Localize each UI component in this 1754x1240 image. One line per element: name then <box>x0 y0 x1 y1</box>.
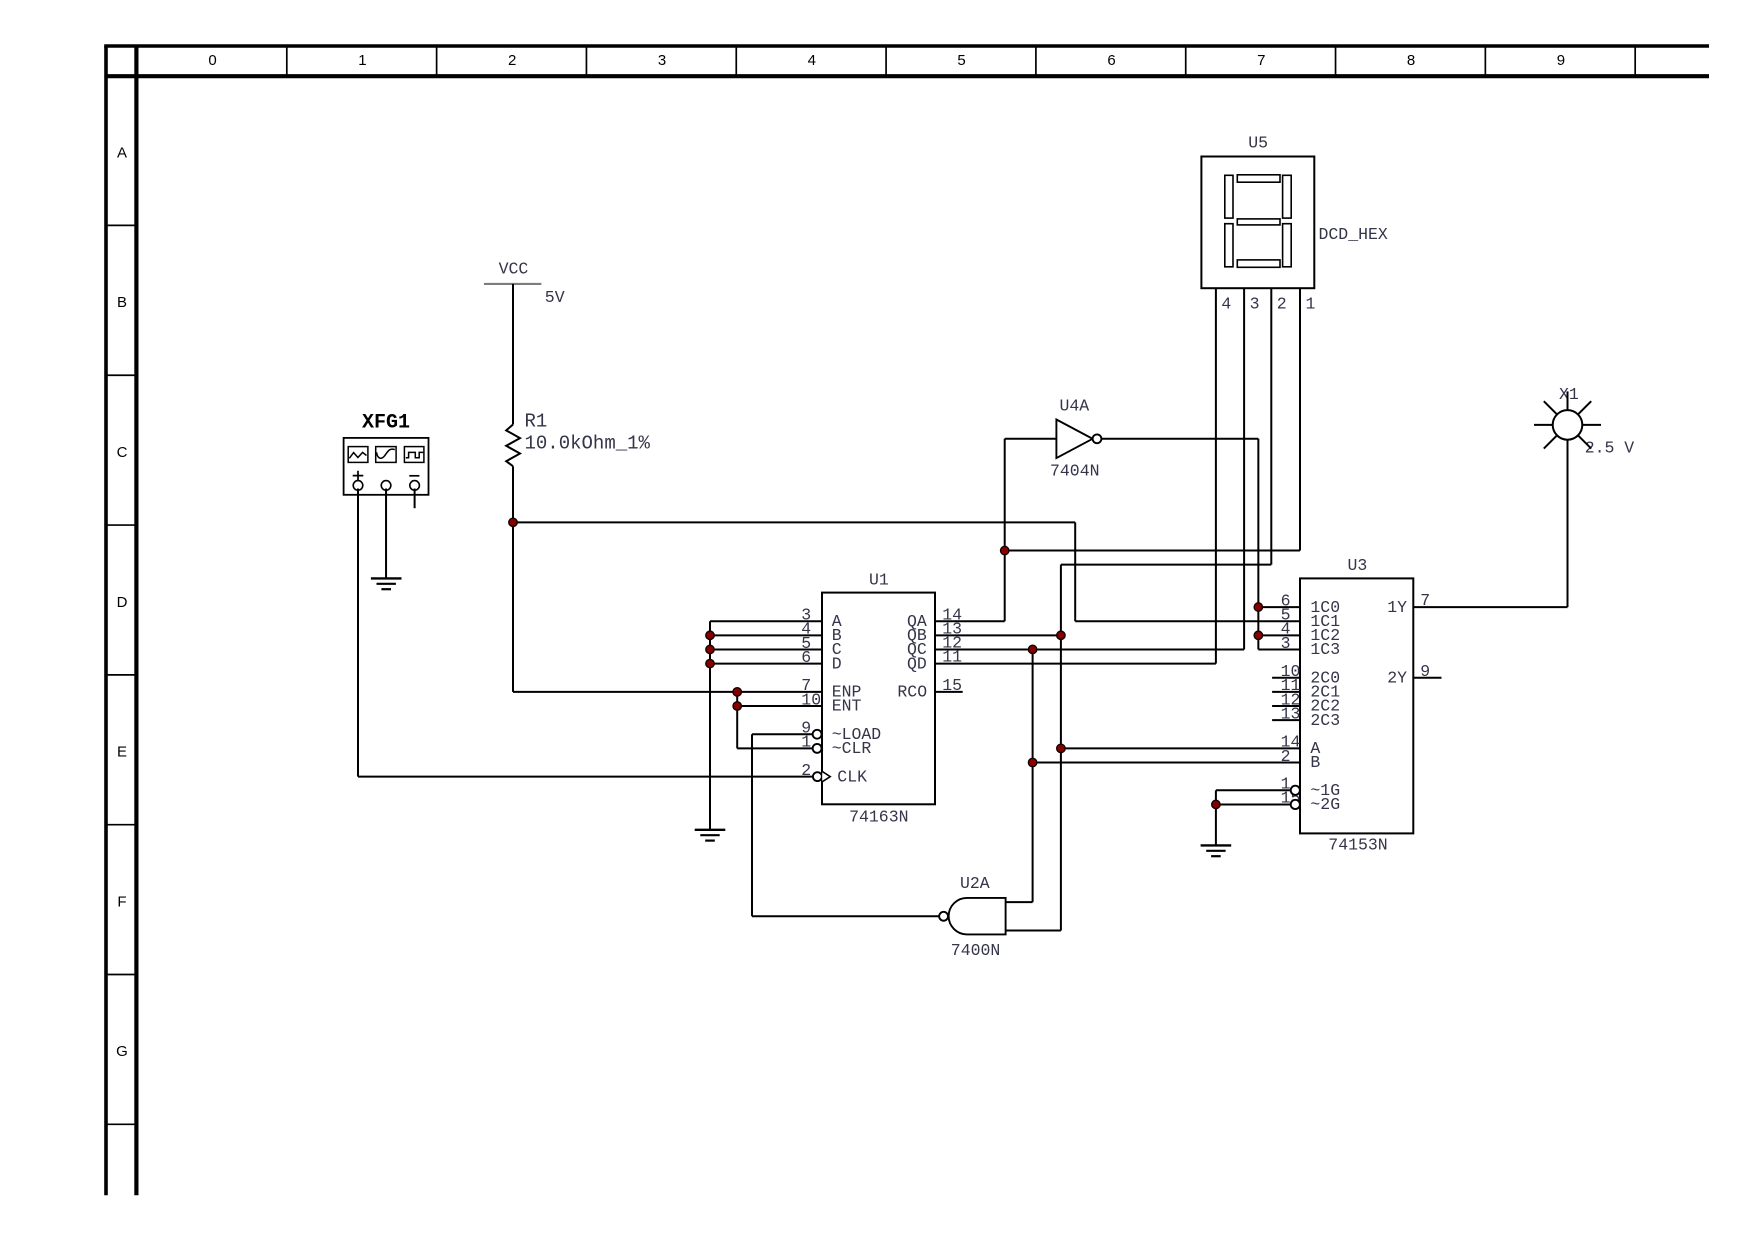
wire ~CLR <box>737 747 812 749</box>
ground (U3 strobes) <box>1201 845 1232 856</box>
svg-text:7: 7 <box>1257 52 1265 69</box>
svg-text:U4A: U4A <box>1060 396 1090 415</box>
svg-text:74153N: 74153N <box>1328 836 1387 855</box>
svg-text:U1: U1 <box>869 571 889 590</box>
wire QB to U5 pin2 horizontal <box>1061 564 1271 566</box>
svg-text:1: 1 <box>358 52 366 69</box>
svg-text:2C3: 2C3 <box>1310 711 1340 730</box>
svg-text:0: 0 <box>208 52 216 69</box>
svg-text:~CLR: ~CLR <box>832 739 872 758</box>
wire U5 pin1 vertical <box>1299 288 1301 550</box>
wire U3 1Y <box>1413 606 1567 608</box>
wire U3 1C2 <box>1258 634 1300 636</box>
svg-text:1C3: 1C3 <box>1310 640 1340 659</box>
svg-text:QD: QD <box>907 654 927 673</box>
wire U4A output vertical <box>1257 439 1259 650</box>
junction QC <box>1028 645 1036 653</box>
wire U3 B select <box>1033 762 1300 764</box>
svg-text:7400N: 7400N <box>951 941 1001 960</box>
svg-text:9: 9 <box>1557 52 1565 69</box>
wire QA to U4A vertical <box>1004 439 1006 621</box>
wire U3 ~2G <box>1216 803 1291 805</box>
wire U3 1C3 <box>1258 648 1300 650</box>
svg-text:2.5 V: 2.5 V <box>1585 438 1635 457</box>
wire U4A output <box>1101 438 1258 440</box>
junction 1C2 <box>1254 631 1262 639</box>
wire XFG1 - stub <box>414 489 416 509</box>
wire NAND input top <box>1006 901 1033 903</box>
U3 pin 1 ~1G bubble <box>1291 786 1300 795</box>
NAND gate U2A 7400N (mirrored) <box>939 874 1005 960</box>
junction QA-U4A <box>1001 546 1009 554</box>
wire ~LOAD to NAND output vertical <box>751 734 753 916</box>
junction ~2G-gnd <box>1212 800 1220 808</box>
svg-text:2Y: 2Y <box>1387 668 1407 687</box>
svg-text:DCD_HEX: DCD_HEX <box>1319 225 1388 244</box>
wire U1 B <box>710 634 822 636</box>
svg-text:6: 6 <box>1107 52 1115 69</box>
svg-text:C: C <box>117 444 128 461</box>
svg-text:4: 4 <box>1221 294 1231 313</box>
junction 1C0 <box>1254 603 1262 611</box>
svg-text:RCO: RCO <box>897 683 927 702</box>
wire U5 pin3 vertical <box>1243 288 1245 649</box>
junction C-gnd <box>706 645 714 653</box>
U3 pin 15 ~2G bubble <box>1291 800 1300 809</box>
svg-text:D: D <box>832 654 842 673</box>
U1 pin 2 CLK bubble and edge triangle <box>813 772 822 781</box>
wire U3 A select <box>1061 747 1300 749</box>
wire VCC branch vertical <box>1074 522 1076 621</box>
svg-text:3: 3 <box>658 52 666 69</box>
junction B-gnd <box>706 631 714 639</box>
svg-text:B: B <box>1310 753 1320 772</box>
svg-text:D: D <box>117 594 128 611</box>
svg-text:CLK: CLK <box>837 767 867 786</box>
wire QD <box>935 663 1216 665</box>
svg-text:ENT: ENT <box>832 697 862 716</box>
power VCC 5V <box>484 260 565 307</box>
wire ABCD to ground vertical <box>709 621 711 830</box>
resistor R1 10.0kOhm_1% <box>506 410 650 466</box>
wire U3 2Y stub <box>1413 677 1441 679</box>
U1 pin 1 ~CLR bubble <box>813 744 822 753</box>
ground (XFG1 common) <box>371 578 402 589</box>
wire QB net vertical <box>1060 565 1062 931</box>
U1 pin 9 ~LOAD bubble <box>813 730 822 739</box>
junction QB <box>1057 631 1065 639</box>
wire ENP <box>513 691 822 693</box>
junction U3 B select <box>1028 758 1036 766</box>
wire NAND input bottom <box>1006 929 1061 931</box>
svg-text:7404N: 7404N <box>1050 462 1100 481</box>
svg-text:1Y: 1Y <box>1387 598 1407 617</box>
svg-text:2: 2 <box>508 52 516 69</box>
wire CLK <box>358 776 813 778</box>
svg-text:F: F <box>117 893 126 910</box>
svg-text:3: 3 <box>1250 294 1260 313</box>
svg-text:8: 8 <box>1407 52 1415 69</box>
svg-text:X1: X1 <box>1559 385 1579 404</box>
wire VCC branch to 1C1 (horizontal) <box>513 521 1075 523</box>
wire U1 D <box>710 663 822 665</box>
junction D-gnd <box>706 659 714 667</box>
wire ~LOAD <box>752 733 813 735</box>
wire VCC to R1 <box>512 284 514 425</box>
svg-text:VCC: VCC <box>499 260 529 279</box>
svg-text:U5: U5 <box>1248 134 1268 153</box>
wire QA to U5 pin1 horizontal <box>1005 550 1300 552</box>
wire U3 1C0 <box>1258 606 1300 608</box>
svg-text:XFG1: XFG1 <box>362 411 410 434</box>
svg-text:A: A <box>117 144 127 161</box>
IC U3 74153N <box>1272 556 1430 855</box>
svg-text:1: 1 <box>1306 294 1316 313</box>
wire U5 pin2 vertical <box>1270 288 1272 564</box>
U3 2C0-2C3 unconnected stubs <box>1272 677 1300 679</box>
wire XFG1 + output vertical <box>357 489 359 777</box>
svg-text:U2A: U2A <box>960 874 990 893</box>
wire RCO stub <box>935 691 963 693</box>
wire QB <box>935 634 1061 636</box>
wire to U3 1C1 <box>1075 620 1300 622</box>
wire QC <box>935 648 1244 650</box>
wire QC net vertical <box>1032 649 1034 902</box>
wire NAND output <box>752 915 939 917</box>
wire U5 pin4 vertical <box>1215 288 1217 663</box>
seven-segment display U5 DCD_HEX <box>1201 134 1388 314</box>
svg-text:5V: 5V <box>545 288 565 307</box>
junction U3 A select <box>1057 744 1065 752</box>
svg-text:10.0kOhm_1%: 10.0kOhm_1% <box>525 432 651 454</box>
svg-text:E: E <box>117 744 127 761</box>
IC U1 74163N <box>801 571 962 827</box>
wire QA <box>935 620 1005 622</box>
wire U1 A <box>710 620 822 622</box>
svg-text:B: B <box>117 294 127 311</box>
ground (U1 data inputs) <box>695 830 726 841</box>
junction VCC branch <box>509 518 517 526</box>
wire strobes to ground vertical <box>1215 790 1217 845</box>
probe X1 2.5 V <box>1534 385 1634 457</box>
svg-text:2: 2 <box>1277 294 1287 313</box>
junction ENT <box>733 702 741 710</box>
svg-text:R1: R1 <box>525 410 548 432</box>
wire XFG1 common to ground <box>385 489 387 579</box>
svg-text:74163N: 74163N <box>849 808 908 827</box>
svg-text:U3: U3 <box>1348 556 1368 575</box>
wire R1 to ENP row <box>512 466 514 692</box>
wire U4A input <box>1005 438 1057 440</box>
wire U1 C <box>710 648 822 650</box>
svg-text:5: 5 <box>957 52 965 69</box>
wire ENT <box>737 705 822 707</box>
wire U3 ~1G <box>1216 789 1291 791</box>
svg-text:4: 4 <box>808 52 816 69</box>
function generator XFG1 <box>344 411 429 494</box>
wire X1 vertical <box>1567 440 1569 607</box>
inverter U4A 7404N <box>1050 396 1101 480</box>
svg-text:~2G: ~2G <box>1310 795 1340 814</box>
junction ENP <box>733 688 741 696</box>
svg-text:G: G <box>116 1043 128 1060</box>
wire ENP/ENT/~CLR vertical <box>736 692 738 749</box>
